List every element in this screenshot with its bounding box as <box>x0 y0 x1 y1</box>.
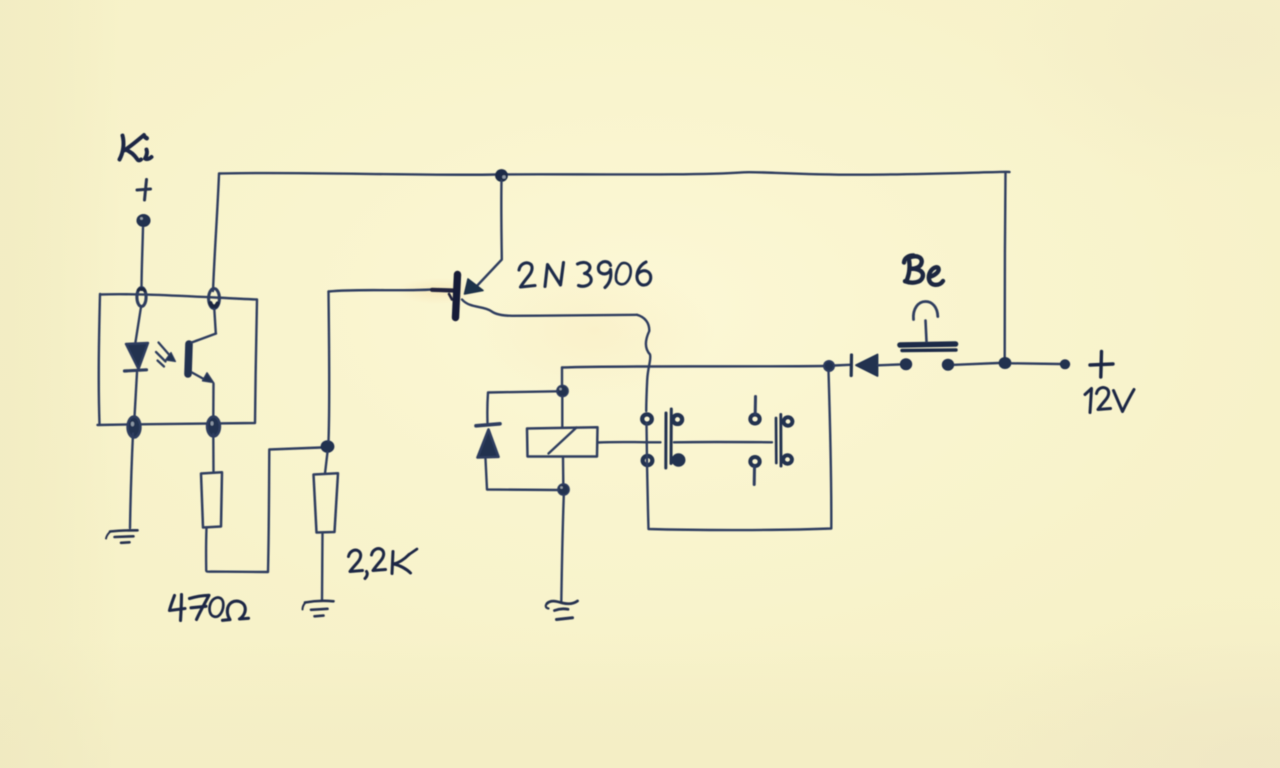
contact enclosure box <box>647 371 832 530</box>
diode D2 <box>850 355 853 376</box>
push button Be contacts <box>900 358 912 370</box>
contact 2 terminal dots and stems <box>750 415 792 467</box>
wire: coil to bottom node <box>562 457 565 484</box>
wire: button to 12V node <box>955 363 999 365</box>
wire: top rail right drop to 12V node <box>1003 173 1006 358</box>
wire: R1 bottom jog to base node <box>206 448 321 573</box>
wire: pin4 to collector <box>214 309 216 334</box>
wire: pin2 down to ground <box>130 434 133 529</box>
wire: top supply rail <box>219 172 1010 175</box>
terminal dot 12V <box>1060 359 1070 369</box>
terminal dot Ki <box>137 215 150 227</box>
node: relay bottom <box>558 484 569 495</box>
wire: R2 to ground <box>321 533 324 600</box>
node: base junction <box>321 441 333 452</box>
wire: node to supply terminal <box>1012 362 1060 365</box>
wire: relay bottom to ground <box>561 495 564 602</box>
label 470 ohm <box>170 595 249 621</box>
wire: node to diode D2 <box>834 364 850 367</box>
label + 12V <box>1085 352 1134 413</box>
wire: base riser <box>327 292 330 442</box>
push button bar <box>900 344 956 345</box>
push button actuator cap <box>913 302 937 320</box>
push button stem <box>926 321 927 342</box>
transistor Q1 collector <box>462 300 637 316</box>
LED of optocoupler <box>126 343 148 369</box>
wire: emitter to pin3 <box>212 384 215 418</box>
label 2,2k <box>349 549 418 579</box>
node: opto pin1 top-left <box>137 288 146 307</box>
node: 12V junction <box>999 357 1012 369</box>
label 2N3906 <box>519 262 651 288</box>
wire: horizontal rail over contact box <box>562 366 828 368</box>
wire: relay top node to coil <box>561 397 563 428</box>
contact 1 terminal dots <box>642 414 683 465</box>
wire: base horizontal <box>329 290 433 292</box>
transistor Q1 base thick lead <box>432 288 453 293</box>
freewheel diode branch box <box>486 391 559 490</box>
wire: pin3 to R1 <box>212 434 215 472</box>
label Ki <box>120 135 152 160</box>
relay contact 1 bars <box>664 413 667 468</box>
light arrows <box>156 343 176 367</box>
junction node: emitter / top rail <box>495 169 508 182</box>
resistor R2 2.2k <box>314 473 339 532</box>
optocoupler U1 box <box>98 294 258 425</box>
node: rail right junction <box>824 361 834 371</box>
phototransistor of optocoupler <box>188 344 189 374</box>
wire: Ki feed down to opto <box>142 228 144 291</box>
wire: coil to contact 1 <box>598 441 661 444</box>
diode D1 (freewheel) <box>476 424 500 426</box>
node: opto pin3 bottom-right <box>207 417 220 437</box>
wire: collector node to relay branch corner <box>561 368 563 387</box>
transistor Q1 emitter wire from node <box>475 181 502 289</box>
label Be <box>904 256 943 285</box>
wire: node to R2 <box>325 452 328 474</box>
wire: top rail left drop to opto box <box>213 174 219 291</box>
wire: contact 1 to contact 2 <box>674 441 772 444</box>
wire: diode to button <box>878 363 899 366</box>
node: opto pin2 bottom-left <box>128 417 141 438</box>
transistor Q1 bar <box>456 275 458 318</box>
wire: pin1 to LED <box>136 307 142 342</box>
relay coil K1 <box>527 427 598 456</box>
resistor R1 470 <box>201 472 222 527</box>
transistor Q1 emitter arrow <box>465 279 484 294</box>
ground relay <box>546 601 578 620</box>
relay contact 2 bar <box>775 418 778 463</box>
wire: collector curve down to contact box <box>637 315 650 411</box>
node: opto pin4 top-right <box>209 289 220 309</box>
ground left <box>106 530 138 543</box>
wire: LED to pin2 <box>135 373 138 418</box>
ground mid (R2) <box>303 601 334 617</box>
plus sign under Ki <box>137 180 151 201</box>
node: relay top <box>557 385 568 396</box>
